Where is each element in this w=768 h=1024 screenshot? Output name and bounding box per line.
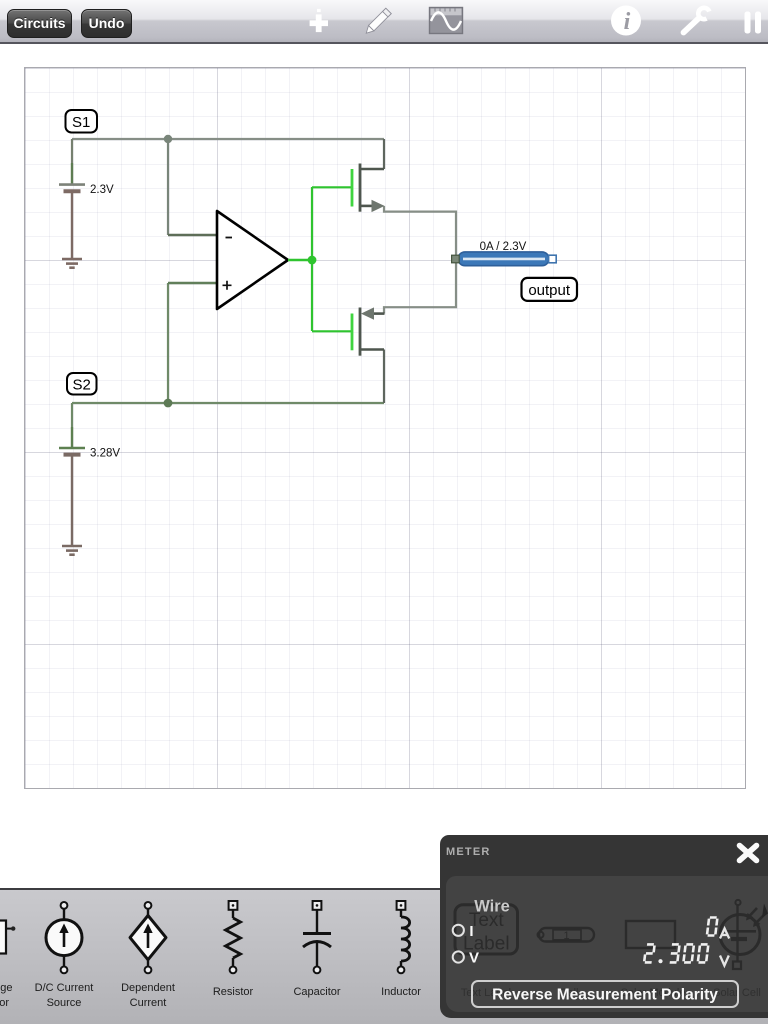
- svg-text:3.28V: 3.28V: [90, 448, 120, 460]
- svg-text:Source: Source: [47, 997, 82, 1009]
- svg-text:ge: ge: [0, 982, 12, 994]
- svg-text:0A / 2.3V: 0A / 2.3V: [480, 241, 527, 253]
- svg-text:Inductor: Inductor: [381, 986, 421, 998]
- svg-text:I: I: [469, 923, 473, 940]
- svg-text:output: output: [528, 282, 571, 299]
- svg-text:S1: S1: [72, 114, 90, 131]
- svg-text:V: V: [469, 950, 479, 967]
- svg-text:Wire: Wire: [474, 898, 510, 916]
- svg-text:D/C Current: D/C Current: [35, 982, 94, 994]
- svg-text:Resistor: Resistor: [213, 986, 254, 998]
- svg-text:or: or: [0, 997, 9, 1009]
- svg-text:Reverse Measurement Polarity: Reverse Measurement Polarity: [492, 987, 718, 1004]
- svg-text:Capacitor: Capacitor: [293, 986, 340, 998]
- svg-text:Current: Current: [130, 997, 167, 1009]
- svg-text:Dependent: Dependent: [121, 982, 175, 994]
- svg-text:1: 1: [563, 930, 569, 942]
- svg-text:2.3V: 2.3V: [90, 184, 114, 196]
- svg-text:S2: S2: [73, 377, 91, 394]
